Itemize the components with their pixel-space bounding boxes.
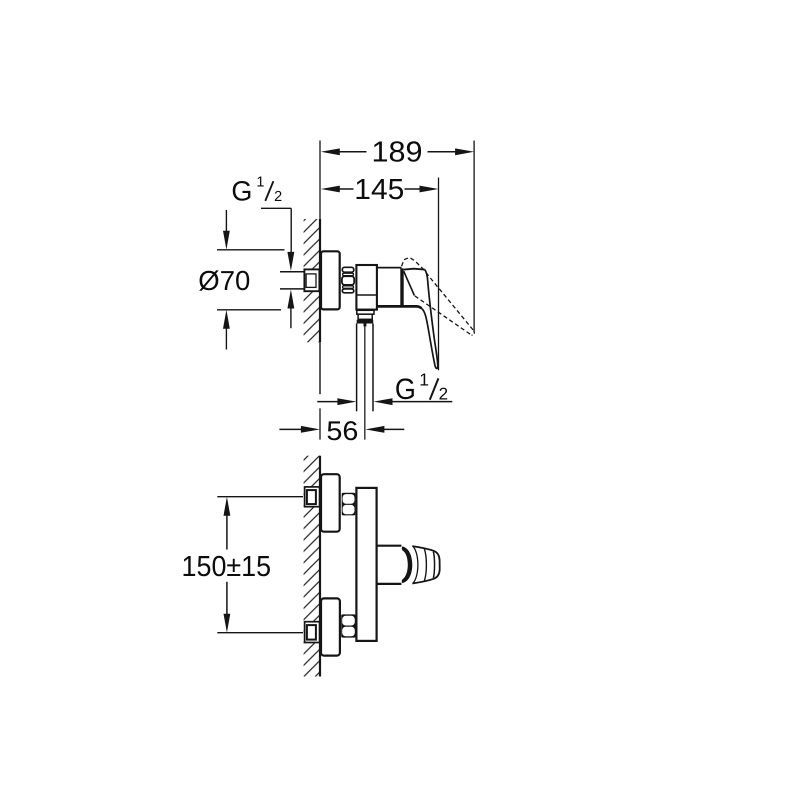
svg-text:1: 1 (256, 174, 264, 190)
svg-text:56: 56 (326, 416, 358, 446)
svg-text:2: 2 (274, 189, 282, 205)
svg-text:145: 145 (354, 174, 404, 206)
svg-text:G: G (231, 175, 252, 206)
svg-text:2: 2 (439, 384, 448, 403)
svg-text:1: 1 (419, 370, 429, 390)
svg-text:G: G (395, 373, 416, 406)
svg-text:189: 189 (372, 137, 423, 169)
svg-text:150±15: 150±15 (182, 551, 272, 583)
svg-text:Ø70: Ø70 (198, 265, 250, 296)
